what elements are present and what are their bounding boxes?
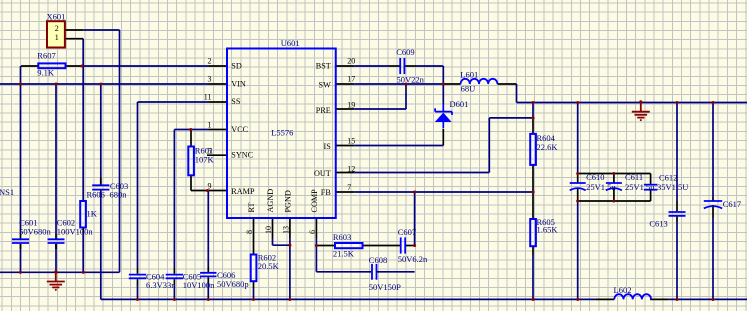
svg-text:25V1.5u: 25V1.5u <box>586 182 616 192</box>
svg-text:13: 13 <box>281 226 290 234</box>
svg-text:22.6K: 22.6K <box>537 142 559 152</box>
svg-text:3: 3 <box>208 75 212 84</box>
svg-text:35V1.5U: 35V1.5U <box>657 182 688 192</box>
svg-text:SYNC: SYNC <box>231 151 253 160</box>
svg-text:6.3V33n: 6.3V33n <box>146 280 176 290</box>
svg-text:107K: 107K <box>195 155 215 165</box>
svg-text:2: 2 <box>208 57 212 66</box>
svg-text:C613: C613 <box>649 218 667 228</box>
svg-text:5: 5 <box>208 146 212 155</box>
svg-text:1: 1 <box>208 120 212 129</box>
svg-text:50V680n: 50V680n <box>19 227 51 237</box>
svg-text:X601: X601 <box>47 11 66 21</box>
svg-text:PRE: PRE <box>316 106 331 115</box>
svg-text:9.1K: 9.1K <box>37 68 55 78</box>
svg-text:17: 17 <box>347 75 355 84</box>
svg-text:11: 11 <box>204 93 212 102</box>
svg-text:OUT: OUT <box>314 169 331 178</box>
svg-text:SS: SS <box>231 97 241 106</box>
svg-text:RAMP: RAMP <box>231 187 255 196</box>
svg-text:68U: 68U <box>461 84 476 94</box>
svg-text:C617: C617 <box>723 199 741 209</box>
svg-text:C612: C612 <box>659 173 677 183</box>
svg-text:100V100n: 100V100n <box>57 226 94 236</box>
svg-text:20: 20 <box>347 57 355 66</box>
svg-text:50V6.2n: 50V6.2n <box>398 254 428 264</box>
svg-text:12: 12 <box>347 165 355 174</box>
svg-text:U601: U601 <box>281 38 300 48</box>
svg-text:15: 15 <box>347 136 355 145</box>
svg-text:6: 6 <box>308 230 317 234</box>
svg-text:680n: 680n <box>110 190 128 200</box>
svg-text:8: 8 <box>245 230 254 234</box>
svg-text:19: 19 <box>347 100 355 109</box>
svg-text:FB: FB <box>321 188 332 197</box>
svg-text:L601: L601 <box>460 70 478 80</box>
svg-text:AGND: AGND <box>266 189 275 213</box>
svg-text:L5576: L5576 <box>271 128 293 138</box>
svg-text:BST: BST <box>316 61 331 70</box>
svg-text:C611: C611 <box>625 172 643 182</box>
svg-text:R606: R606 <box>87 190 105 200</box>
svg-text:C609: C609 <box>396 47 414 57</box>
svg-text:L602: L602 <box>614 285 632 295</box>
svg-text:RT: RT <box>247 203 256 213</box>
svg-text:C610: C610 <box>586 172 604 182</box>
svg-text:50V150P: 50V150P <box>369 282 401 292</box>
svg-text:COMP: COMP <box>310 189 319 213</box>
svg-text:VCC: VCC <box>231 125 248 134</box>
svg-text:VIN: VIN <box>231 79 246 88</box>
svg-text:50V680p: 50V680p <box>217 279 249 289</box>
svg-text:1: 1 <box>55 33 59 42</box>
svg-text:21.5K: 21.5K <box>333 249 355 259</box>
svg-text:R603: R603 <box>333 232 351 242</box>
svg-text:50V22n: 50V22n <box>397 75 425 85</box>
svg-text:1K: 1K <box>87 208 98 218</box>
svg-text:C608: C608 <box>369 255 387 265</box>
svg-text:NS1: NS1 <box>0 187 14 197</box>
svg-text:7: 7 <box>347 183 351 192</box>
svg-text:2: 2 <box>55 24 59 33</box>
svg-text:C607: C607 <box>398 227 416 237</box>
svg-text:IS: IS <box>324 142 332 151</box>
svg-text:PGND: PGND <box>284 190 293 212</box>
svg-text:D601: D601 <box>450 99 469 109</box>
svg-text:10: 10 <box>264 226 273 234</box>
svg-text:20.5K: 20.5K <box>258 261 280 271</box>
svg-text:9: 9 <box>208 181 212 190</box>
svg-text:10V100n: 10V100n <box>183 280 215 290</box>
svg-text:R607: R607 <box>37 51 55 61</box>
svg-text:SD: SD <box>231 62 242 71</box>
svg-text:1.65K: 1.65K <box>537 225 559 235</box>
svg-text:SW: SW <box>319 81 332 90</box>
svg-text:25V1.5u: 25V1.5u <box>625 182 655 192</box>
